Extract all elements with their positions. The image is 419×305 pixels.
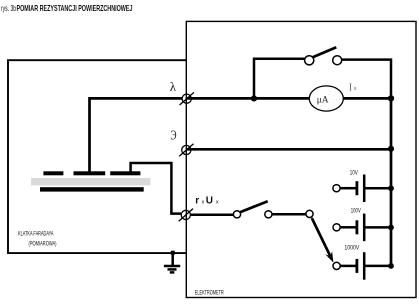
svg-text:r: r: [195, 196, 199, 207]
svg-text:x: x: [216, 200, 219, 206]
selector arm arrow to 1000V contact: [312, 218, 331, 256]
selector pivot contact: [306, 210, 313, 217]
electrode E1 (guard left bar): [43, 171, 63, 175]
ground junction on cage bottom: [171, 251, 175, 255]
svg-text:10V: 10V: [350, 169, 358, 176]
wire bypass branch with switch: [254, 59, 305, 99]
junction at 1000V and bus: [388, 263, 394, 269]
wire lambda terminal to meter and right bus: [187, 97, 310, 100]
microammeter U1: [309, 86, 343, 111]
ground: [171, 253, 174, 265]
wire U terminal to switch S2: [190, 213, 233, 216]
svg-text:rys. 3b: rys. 3b: [1, 3, 16, 13]
switch S2 fixed contact: [265, 211, 272, 218]
terminal lambda (feedthrough): [182, 94, 191, 103]
svg-text:POMIAR REZYSTANCJI POWIERZCHNI: POMIAR REZYSTANCJI POWIERZCHNIOWEJ: [17, 3, 133, 13]
svg-text:(POMIAROWA): (POMIAROWA): [29, 241, 57, 248]
junction at 10V and bus: [388, 185, 394, 191]
switch S2 blade: [240, 201, 268, 212]
svg-text:100V: 100V: [351, 208, 361, 215]
svg-text:I: I: [349, 83, 353, 94]
svg-text:ELEKTROMETR: ELEKTROMETR: [195, 289, 224, 296]
battery B2 selector contact: [333, 224, 340, 231]
bottom electrode plate: [40, 187, 144, 191]
junction at 100V and bus: [388, 225, 394, 231]
switch S1 blade: [313, 47, 337, 57]
wire right electrode to U terminal: [131, 163, 181, 214]
terminal E (feedthrough): [182, 145, 191, 154]
battery B1 (10V): [340, 187, 356, 190]
svg-text:λ: λ: [170, 79, 177, 94]
terminal U (feedthrough): [181, 210, 190, 219]
svg-text:U: U: [206, 196, 213, 207]
title: rys.3b POMIAR REZYSTANCJI POWIERZCHNIOWEJ: [1, 3, 133, 13]
junction at lambda line and bypass: [251, 95, 257, 101]
junction at E line and bus: [388, 146, 394, 152]
battery B2 (100V): [340, 226, 356, 229]
wire middle electrode to lambda terminal: [90, 98, 183, 172]
svg-text:1000V: 1000V: [344, 244, 359, 251]
enclosure: electrometer box: [186, 21, 416, 297]
sample plate (gray): [31, 178, 150, 185]
switch S2 pivot contact: [233, 211, 240, 218]
enclosure: Faraday cage box: [8, 60, 186, 253]
switch S1 pivot contact: [305, 56, 314, 65]
junction at lambda line and bus: [388, 95, 394, 101]
wire switch S2 to selector pivot: [272, 213, 306, 216]
wire E terminal to bus: [187, 148, 392, 151]
svg-text:s: s: [354, 86, 357, 92]
electrode E2 (measuring middle bar): [74, 171, 106, 175]
svg-text:μA: μA: [317, 95, 329, 105]
svg-text:Э: Э: [170, 129, 176, 144]
svg-text:x: x: [202, 200, 205, 206]
svg-text:KLATKA FARADAYA: KLATKA FARADAYA: [18, 230, 54, 237]
battery B3 selector contact: [333, 262, 340, 269]
wire bus (battery common): [390, 98, 393, 266]
battery B1 selector contact: [333, 185, 340, 192]
switch S1 fixed contact: [333, 56, 342, 65]
electrode E3 (right bar): [110, 171, 140, 175]
battery B3 (1000V): [340, 265, 356, 268]
